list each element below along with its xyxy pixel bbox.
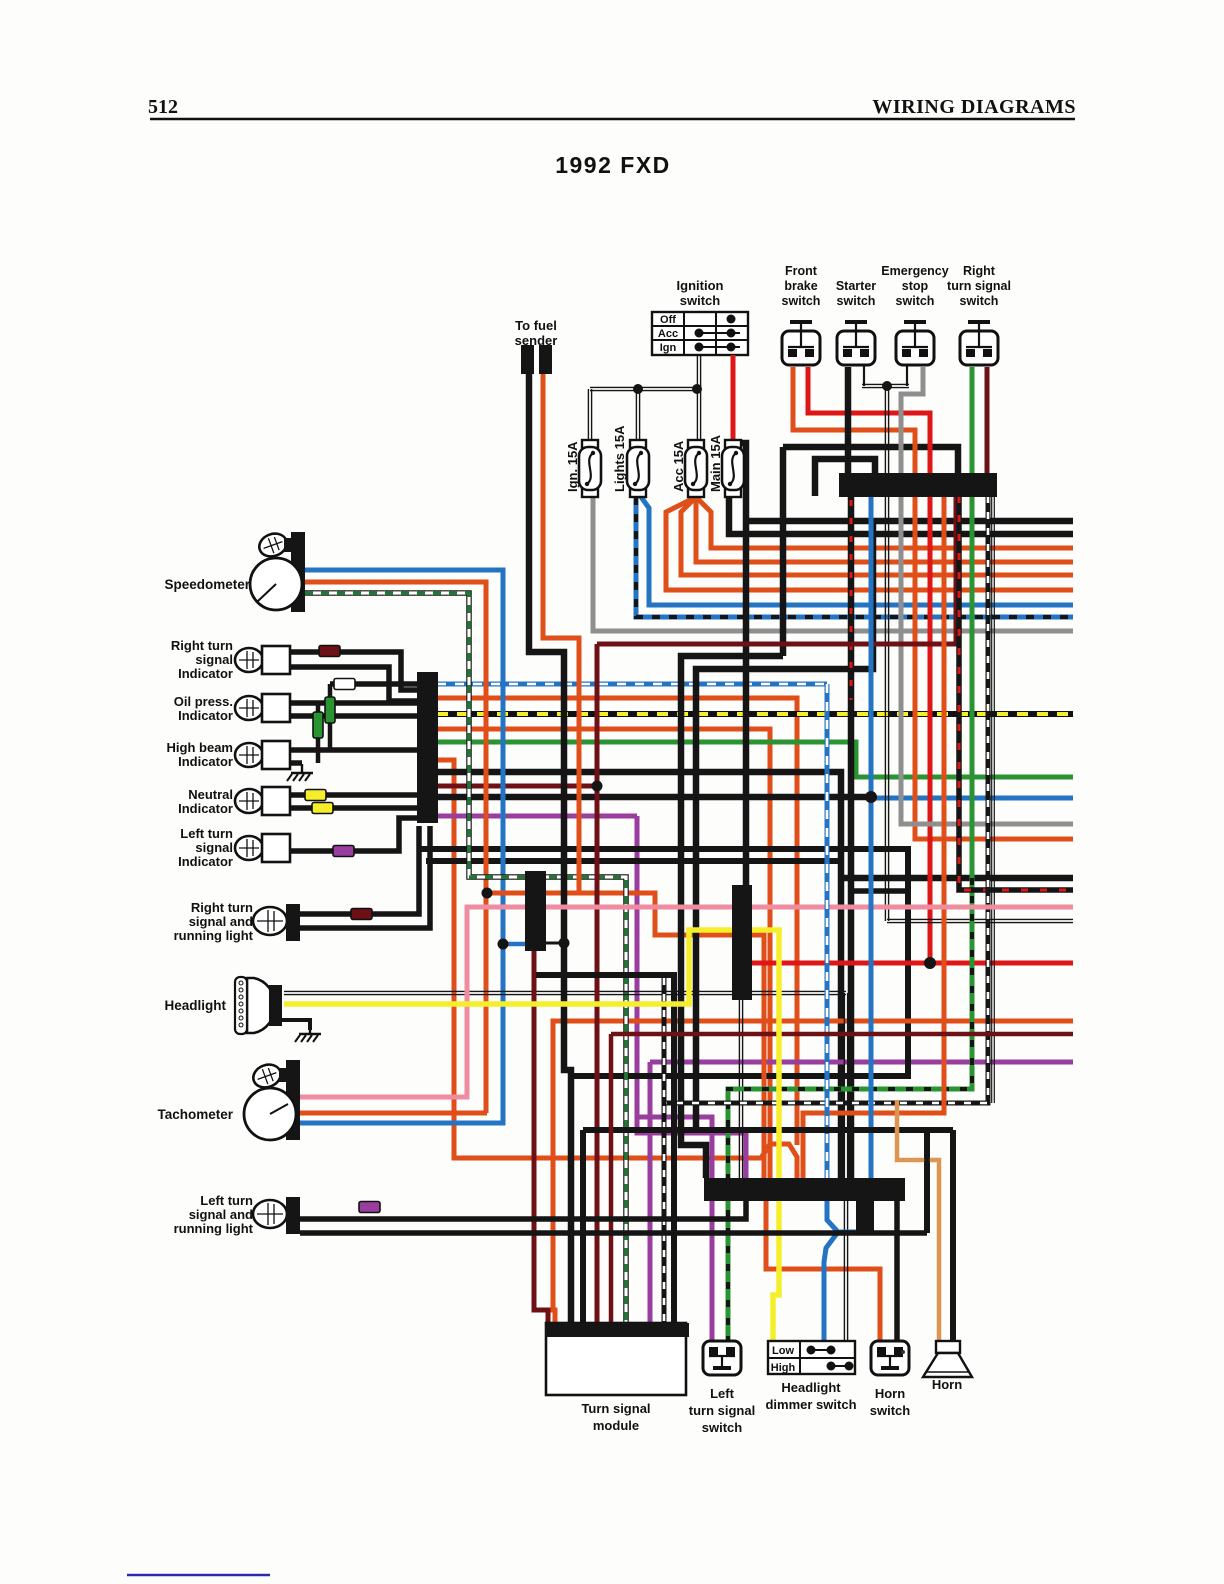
wire maroon stub y786 — [437, 784, 597, 789]
wire tan to horn — [897, 1100, 939, 1341]
connector bar small mid — [525, 871, 546, 951]
wire blue y798 right — [871, 796, 1073, 801]
svg-text:Right turn: Right turn — [191, 900, 253, 915]
wire green-black dashed to lt switch — [728, 878, 972, 1341]
svg-text:Headlight: Headlight — [164, 998, 226, 1013]
fuse Main 15A — [725, 440, 741, 448]
svg-text:Ign. 15A: Ign. 15A — [565, 441, 580, 492]
svg-text:Horn: Horn — [875, 1386, 905, 1401]
svg-text:running light: running light — [174, 1221, 254, 1236]
wire oil indicator a — [290, 700, 417, 706]
wire interconnect x318 — [316, 703, 321, 763]
tachometer symbol — [286, 1060, 300, 1140]
right turn signal switch — [960, 331, 998, 365]
wire black y849 — [417, 849, 908, 1076]
wire fuel sender orange — [543, 374, 579, 893]
wire fuel sender black — [529, 374, 571, 1323]
connector bar top right — [839, 473, 997, 497]
stray dot — [901, 1350, 905, 1354]
wire black bridge1 — [783, 447, 958, 473]
svg-text:turn signal: turn signal — [947, 279, 1011, 293]
wire maroon x597 — [595, 644, 600, 1323]
wire black main fuse top branch — [735, 443, 746, 885]
wire orange acc fan c — [681, 497, 1073, 575]
junction dot red y963 — [924, 957, 936, 969]
wire purple x637 — [637, 816, 746, 1178]
connector purple lt indicator — [333, 846, 354, 857]
wire highbeam a — [290, 747, 417, 753]
fuse Acc 15A — [688, 440, 704, 448]
svg-text:Indicator: Indicator — [178, 754, 233, 769]
wire thin double x993 — [991, 496, 993, 1103]
svg-text:512: 512 — [148, 96, 178, 118]
wire ignition double down — [696, 355, 698, 389]
wire blue-white dashed x827 — [825, 684, 830, 1178]
junction dot orange y893 — [482, 888, 493, 899]
wire blue x871 — [869, 496, 874, 1178]
wire purple to switch — [637, 1117, 712, 1341]
wire lt running light bottom — [300, 1230, 927, 1236]
wire black y975 — [536, 975, 674, 1323]
connector white — [334, 679, 355, 690]
svg-text:brake: brake — [784, 279, 817, 293]
headlight dimmer switch table — [768, 1341, 855, 1374]
connector bar bottom — [704, 1178, 905, 1201]
svg-text:Acc 15A: Acc 15A — [671, 440, 686, 492]
wire black-white dashed x988 — [664, 496, 988, 1103]
emergency stop switch — [896, 331, 934, 365]
header rule — [150, 118, 1075, 121]
wire blue-black dashed y617 — [636, 497, 1073, 617]
left turn running light symbol — [253, 1200, 287, 1228]
wire white-conn wire — [330, 681, 417, 687]
wire neutral b — [290, 805, 417, 811]
svg-text:switch: switch — [782, 294, 821, 308]
connector yellow neutral b — [312, 803, 333, 814]
svg-text:stop: stop — [902, 279, 929, 293]
wire yellow-black dashed y714 — [437, 711, 1073, 717]
svg-text:Indicator: Indicator — [178, 854, 233, 869]
wire oil indicator b — [290, 713, 417, 719]
horn switch — [871, 1341, 909, 1375]
svg-text:Off: Off — [660, 314, 676, 326]
label Main 15A — [708, 434, 723, 492]
wire purple y1062 — [650, 1060, 1073, 1065]
ground high beam — [301, 764, 303, 773]
wire black y669 — [696, 521, 873, 1130]
connector yellow neutral a — [305, 790, 326, 801]
label Lights 15A — [612, 425, 627, 492]
connector maroon rt indicator — [319, 646, 340, 657]
wire ignition red — [731, 355, 736, 441]
svg-text:signal: signal — [195, 652, 233, 667]
junction dot starter link — [882, 381, 892, 391]
svg-text:Headlight: Headlight — [781, 1380, 841, 1395]
wire front brake orange — [793, 367, 1073, 839]
svg-text:dimmer switch: dimmer switch — [765, 1397, 856, 1412]
wire rt indicator a — [290, 652, 417, 690]
svg-text:Acc: Acc — [658, 328, 678, 340]
wire orange y729 — [437, 729, 770, 1178]
svg-text:WIRING DIAGRAMS: WIRING DIAGRAMS — [872, 96, 1076, 118]
wire rt maroon — [985, 367, 990, 473]
svg-text:Speedometer: Speedometer — [164, 577, 250, 592]
wire black y878 — [841, 875, 1073, 882]
speedometer symbol — [291, 532, 305, 612]
wire gray from ign fuse — [593, 497, 1073, 631]
label Ign 15A — [565, 441, 580, 492]
wire speedo blue — [300, 570, 503, 1123]
headlight ground — [309, 1030, 311, 1034]
wire orange y698 — [437, 698, 797, 1145]
svg-text:Left turn: Left turn — [200, 1193, 253, 1208]
wire yellow to dimmer — [773, 1200, 779, 1341]
wire black y861 — [426, 858, 841, 864]
wire purple y816 — [437, 814, 637, 819]
wire black y656 — [681, 656, 783, 1178]
svg-text:Left turn: Left turn — [180, 826, 233, 841]
junction dot ignition b — [692, 384, 702, 394]
junction dot ignition a — [633, 384, 643, 394]
left turn signal indicator — [235, 836, 263, 860]
wire headlight yellow — [284, 930, 779, 1178]
svg-text:switch: switch — [702, 1420, 743, 1435]
svg-text:signal and: signal and — [189, 1207, 253, 1222]
svg-text:Indicator: Indicator — [178, 801, 233, 816]
junction dot black small bar — [559, 938, 570, 949]
svg-text:Right turn: Right turn — [171, 638, 233, 653]
wire rt running light top — [300, 826, 419, 914]
svg-text:Starter: Starter — [836, 279, 876, 293]
label Acc 15A — [671, 440, 686, 492]
svg-text:module: module — [593, 1418, 639, 1433]
connector bar instruments — [417, 672, 438, 823]
wire red y963 — [751, 961, 1073, 966]
fuse Lights 15A — [630, 440, 646, 448]
connector green a — [313, 712, 323, 738]
wire black y1130 — [583, 1127, 953, 1133]
headlight ground wire — [282, 1020, 310, 1030]
wire pink — [300, 907, 1073, 1097]
wire orange acc fan b — [696, 497, 1073, 562]
wire blue from lights fuse — [641, 497, 1073, 605]
wire double midbar to bottom bar — [738, 1000, 740, 1178]
wire speedo-tach orange vertical — [305, 582, 486, 1113]
connector stub below bar — [856, 1200, 874, 1232]
wire blue to dimmer — [824, 1232, 838, 1341]
wire blue below-bar U — [827, 1200, 871, 1232]
left turn signal switch bottom — [703, 1341, 741, 1375]
wire rt running light bottom — [300, 826, 430, 928]
wire maroon small bar down — [534, 951, 548, 1323]
wire black y772 — [437, 772, 841, 1178]
wire lt indicator — [290, 818, 417, 851]
wire lt running light top — [300, 1200, 746, 1219]
svg-text:1992 FXD: 1992 FXD — [555, 152, 671, 178]
wire tach orange — [300, 1111, 487, 1116]
wire orange y893 — [486, 893, 764, 1178]
svg-text:Lights 15A: Lights 15A — [612, 425, 627, 492]
svg-text:switch: switch — [837, 294, 876, 308]
svg-text:Ign: Ign — [660, 342, 677, 354]
svg-text:Turn signal: Turn signal — [581, 1401, 650, 1416]
wire black x927 tail — [924, 1130, 930, 1233]
wire rt green — [970, 367, 975, 878]
wire highbeam b — [290, 760, 302, 766]
wire black from main fuse — [729, 497, 1073, 534]
connector maroon rt running — [351, 909, 372, 920]
svg-text:running light: running light — [174, 928, 254, 943]
svg-text:Neutral: Neutral — [188, 787, 233, 802]
svg-text:switch: switch — [680, 293, 721, 308]
wire black y521 — [746, 518, 1073, 525]
junction dot blue x871 — [865, 791, 877, 803]
svg-text:Indicator: Indicator — [178, 666, 233, 681]
right turn running light symbol — [253, 907, 287, 935]
wire black-white dashed x664 — [662, 978, 667, 1323]
fuel sender pins — [521, 345, 534, 374]
wire ignition-fuse link — [590, 386, 699, 388]
junction dot blue small bar — [498, 939, 509, 950]
wire starter black — [845, 367, 852, 473]
wire blue stub small bar — [503, 942, 525, 947]
svg-text:Front: Front — [785, 264, 818, 278]
svg-text:Horn: Horn — [932, 1377, 962, 1392]
right turn signal indicator — [235, 648, 263, 672]
svg-text:Main 15A: Main 15A — [708, 434, 723, 492]
wire green y742 — [437, 742, 1073, 777]
horn symbol — [936, 1341, 960, 1353]
high beam indicator — [235, 743, 263, 767]
wire maroon below bar — [597, 496, 956, 644]
svg-text:signal and: signal and — [189, 914, 253, 929]
svg-text:switch: switch — [960, 294, 999, 308]
wire orange x944 — [803, 496, 944, 1178]
ignition switch table — [652, 312, 748, 355]
wire orange acc fan d — [666, 497, 1073, 590]
svg-text:To fuel: To fuel — [515, 318, 557, 333]
wire maroon y1034 — [611, 1032, 1073, 1037]
svg-text:Low: Low — [772, 1345, 794, 1357]
svg-text:High: High — [771, 1362, 796, 1374]
wire black stub small bar — [546, 942, 564, 945]
svg-text:Indicator: Indicator — [178, 708, 233, 723]
starter switch — [837, 331, 875, 365]
svg-text:sender: sender — [515, 333, 558, 348]
connector bar mid right — [732, 885, 752, 1000]
wire neutral a — [290, 792, 417, 798]
wire black y797 — [437, 794, 869, 801]
wire front brake red — [808, 367, 930, 963]
front brake switch — [782, 331, 820, 365]
svg-text:switch: switch — [896, 294, 935, 308]
connector purple lt running — [359, 1202, 380, 1213]
svg-text:switch: switch — [870, 1403, 911, 1418]
svg-text:Oil press.: Oil press. — [174, 694, 233, 709]
wire double below bar to dimmer — [843, 1200, 845, 1341]
wire interconnect x330 — [328, 684, 333, 750]
oil pressure indicator — [235, 696, 263, 720]
svg-text:Emergency: Emergency — [881, 264, 948, 278]
wire speedo green-dashed — [305, 593, 626, 1323]
headlight symbol — [247, 978, 275, 1033]
svg-text:Left: Left — [710, 1386, 735, 1401]
wire black y891 — [851, 888, 908, 894]
svg-text:signal: signal — [195, 840, 233, 855]
turn signal module box — [546, 1323, 686, 1395]
wire headlight double — [284, 990, 846, 992]
wire orange bar stub bump — [437, 760, 797, 1178]
wire horn switch black — [894, 1200, 900, 1341]
wire black x851 — [848, 496, 855, 1178]
connector green b — [325, 697, 335, 723]
svg-text:High beam: High beam — [167, 740, 233, 755]
wire starter-emergency link — [863, 365, 865, 386]
svg-text:Right: Right — [963, 264, 996, 278]
wire black-red-dashed x959 — [959, 496, 1073, 890]
fuse Ign 15A — [582, 440, 598, 448]
svg-text:Tachometer: Tachometer — [157, 1107, 233, 1122]
bottom left blue mark — [127, 1574, 270, 1577]
svg-text:turn signal: turn signal — [689, 1403, 755, 1418]
wire emergency gray — [901, 367, 1073, 824]
wire black bridge2 — [815, 459, 875, 496]
wire rt indicator b — [290, 667, 417, 701]
wire orange horn feed — [766, 1200, 880, 1341]
junction dot maroon — [592, 781, 603, 792]
wire blue-dashed horizontal y684 — [437, 682, 827, 687]
wire orange y1021 — [553, 1021, 1073, 1323]
neutral indicator — [235, 789, 263, 813]
svg-text:Ignition: Ignition — [677, 278, 724, 293]
wire orange acc fan a — [696, 497, 1073, 548]
